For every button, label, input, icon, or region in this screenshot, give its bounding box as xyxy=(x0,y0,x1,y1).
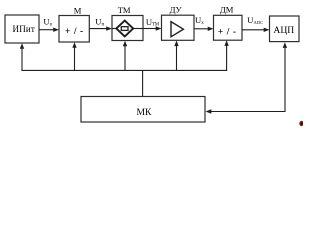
wire Uтм: ТМ -> ДУ xyxy=(143,28,157,30)
svg-text:ДМ: ДМ xyxy=(220,5,234,15)
svg-text:МК: МК xyxy=(137,107,153,118)
wire inside ТМ right xyxy=(133,28,143,30)
wire Uo: ИПит -> М xyxy=(39,29,54,31)
svg-text:+ / -: + / - xyxy=(65,27,84,37)
block ТМ (tensometric bridge) xyxy=(112,16,143,41)
block М (modulator) xyxy=(59,16,89,43)
svg-text:АЦП: АЦП xyxy=(273,25,294,36)
svg-text:М: М xyxy=(74,5,82,15)
block МК (microcontroller) xyxy=(81,97,205,123)
block ДУ (differential amplifier) xyxy=(162,15,195,40)
block ИПит (power source) xyxy=(5,15,39,43)
wire bus riser to М xyxy=(74,47,76,71)
svg-text:ИПит: ИПит xyxy=(13,24,36,34)
scan artifact red dot xyxy=(299,121,303,126)
svg-text:+ / -: + / - xyxy=(218,27,237,37)
wire Uх: ДУ -> ДМ xyxy=(194,28,209,30)
wire Uп: М -> ТМ xyxy=(89,28,107,30)
svg-text:ТМ: ТМ xyxy=(118,5,131,15)
wire bus riser to ИПит xyxy=(21,48,23,71)
bridge symbol (diamond) xyxy=(116,21,133,37)
wire bus drop to МК xyxy=(142,70,144,96)
wire АЦП-МК vertical xyxy=(284,47,286,112)
amplifier triangle xyxy=(171,22,183,37)
bridge inner resistor xyxy=(121,27,128,31)
wire Uadc: ДМ -> АЦП xyxy=(242,29,265,31)
wire inside ТМ left xyxy=(112,28,116,30)
wire АЦП-МК horizontal xyxy=(211,111,286,113)
svg-text:ДУ: ДУ xyxy=(170,5,183,15)
wire bus riser to ДУ xyxy=(176,45,178,71)
block ДМ (demodulator) xyxy=(214,15,243,40)
control bus horizontal xyxy=(21,69,227,71)
wire bus riser to ТМ xyxy=(124,45,126,70)
block АЦП (ADC) xyxy=(270,16,300,42)
wire bus riser to ДМ xyxy=(226,44,228,70)
